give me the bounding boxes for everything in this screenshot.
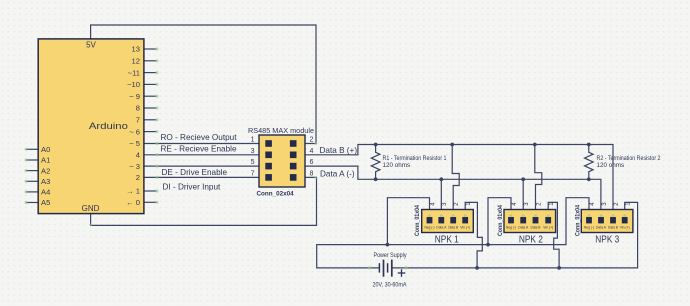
Arduino module A1 [26, 39, 157, 214]
NPK3 pad labels [584, 225, 630, 229]
svg-text:Data B: Data B [608, 225, 619, 229]
svg-text:Data A: Data A [436, 225, 447, 229]
svg-text:Neg (-): Neg (-) [425, 225, 435, 229]
svg-text:DE - Drive Enable: DE - Drive Enable [162, 168, 228, 177]
NPK1 body [422, 210, 474, 233]
svg-text:Vin (+): Vin (+) [543, 225, 553, 229]
svg-text:5V: 5V [86, 40, 96, 49]
svg-text:3: 3 [251, 148, 255, 155]
NPK1 pad labels [425, 225, 471, 229]
svg-text:Data B (+): Data B (+) [320, 146, 358, 155]
svg-text:NPK 3: NPK 3 [595, 234, 619, 245]
svg-text:Conn_02x04: Conn_02x04 [257, 191, 295, 198]
junction dots Data A bus [374, 177, 591, 181]
NPK2 pad labels [506, 225, 553, 229]
NPK 1 connector [415, 202, 473, 246]
svg-text:A0: A0 [41, 145, 50, 154]
wire RE: Arduino pin 4 to RS485 pin 3 [144, 154, 259, 156]
svg-text:Data B: Data B [448, 225, 459, 229]
battery plates [379, 260, 391, 277]
svg-text:8: 8 [310, 170, 314, 177]
svg-text:5: 5 [251, 159, 255, 166]
RS485 MAX module connector U2 [248, 126, 314, 197]
svg-text:Conn_01x04: Conn_01x04 [576, 204, 582, 236]
svg-text:A2: A2 [41, 166, 50, 175]
wire to RS485 pin 5 [144, 165, 259, 167]
Arduino left analog pin stubs [26, 149, 39, 202]
svg-text:RE - Recieve Enable: RE - Recieve Enable [161, 144, 237, 153]
svg-text:A3: A3 [41, 177, 50, 186]
RS485 pads [265, 140, 296, 181]
wire NPK2 Data A drop [522, 179, 524, 219]
svg-text:A5: A5 [41, 198, 50, 207]
NPK1 rotated pin numbers 4 3 2 1 [430, 202, 472, 206]
green pin end dots [24, 47, 626, 269]
wire NPK2 Neg: pad up, left, down to negative bus [488, 198, 511, 245]
NPK 2 connector [498, 202, 555, 246]
svg-text:20V, 30-60mA: 20V, 30-60mA [373, 281, 408, 288]
svg-text:2: 2 [310, 137, 314, 144]
NPK2 rotated pin numbers 4 3 2 1 [512, 202, 555, 206]
svg-text:Arduino: Arduino [89, 121, 128, 132]
svg-text:RO - Recieve Output: RO - Recieve Output [161, 133, 238, 142]
NPK1 pads [427, 217, 468, 223]
wire NPK1 Data B drop with jog over Data A bus [452, 145, 459, 220]
wire NPK1 Neg: pad up, left, down to negative bus [387, 198, 429, 245]
wire GND net: Arduino GND pin down, right, up to RS485 pin 8 [91, 177, 317, 225]
svg-text:A4: A4 [41, 188, 50, 197]
svg-text:4: 4 [136, 151, 140, 160]
svg-text:Conn_01x04: Conn_01x04 [498, 204, 504, 236]
svg-text:1: 1 [251, 137, 255, 144]
right pin names 13..0 [126, 45, 140, 207]
svg-text:Neg (-): Neg (-) [584, 225, 594, 229]
svg-text:Vin (+): Vin (+) [460, 225, 470, 229]
svg-text:7: 7 [136, 116, 140, 125]
svg-text:120 ohms: 120 ohms [597, 162, 625, 169]
junction dots Data B bus [374, 143, 591, 147]
svg-text:Neg (-): Neg (-) [506, 225, 516, 229]
wire RO: Arduino pin 5 to RS485 pin 1 [144, 143, 259, 145]
pin numbers 2 4 6 8 [310, 137, 314, 178]
pin numbers 1 3 5 7 [251, 137, 255, 178]
svg-text:~11: ~11 [128, 68, 140, 77]
svg-text:12: 12 [132, 57, 140, 66]
resistor R2 zigzag [585, 145, 594, 180]
Arduino unconnected right pin stubs [144, 49, 157, 202]
RS485 body [259, 135, 305, 187]
Arduino body [38, 39, 144, 214]
svg-text:2: 2 [136, 173, 140, 182]
wire Data A (-) net: RS485 pin 6 jog down to bus, across, to NPK3 Data A pad [305, 166, 601, 219]
svg-text:8: 8 [136, 104, 140, 113]
svg-text:~ 9: ~ 9 [129, 92, 140, 101]
wire NPK1 Vin: pad up, right, down with jog over negative bus to positive bus [465, 202, 482, 268]
NPK2 pads [508, 217, 551, 223]
NPK3 body [581, 210, 633, 233]
svg-text:120 ohms: 120 ohms [383, 162, 411, 169]
wire 5V net: Arduino 5V pin up, across top, down to RS485 pin 2 [91, 25, 316, 144]
svg-text:~ 3: ~ 3 [129, 162, 140, 171]
svg-text:Data A (-): Data A (-) [320, 170, 355, 179]
left pin names A0..A5 [41, 145, 50, 207]
svg-text:GND: GND [82, 204, 100, 213]
svg-text:RS485 MAX module: RS485 MAX module [248, 126, 314, 135]
svg-text:→ 1: → 1 [126, 187, 140, 196]
svg-text:DI - Driver Input: DI - Driver Input [163, 183, 222, 192]
junction dots negative bus [386, 243, 490, 247]
svg-text:6: 6 [310, 159, 314, 166]
svg-text:~10: ~10 [127, 80, 140, 89]
svg-text:Data A: Data A [596, 225, 607, 229]
NPK3 rotated pin numbers 4 3 2 1 [590, 202, 632, 206]
svg-text:~ 5: ~ 5 [129, 139, 140, 148]
resistor R1 zigzag [371, 145, 380, 180]
battery plus sign [398, 269, 406, 277]
svg-text:Power Supply: Power Supply [374, 252, 408, 259]
NPK3 pads [586, 217, 628, 223]
wire NPK2 Data B drop with jog over Data A bus [535, 145, 542, 220]
svg-text:Vin (+): Vin (+) [620, 225, 630, 229]
svg-text:A1: A1 [41, 156, 50, 165]
wire NPK1 Data A drop [440, 179, 442, 219]
svg-text:~ 6: ~ 6 [129, 127, 140, 136]
svg-text:← 0: ← 0 [126, 198, 140, 207]
svg-text:Data A: Data A [518, 225, 529, 229]
NPK 3 connector [576, 202, 633, 246]
svg-text:NPK 1: NPK 1 [435, 234, 459, 245]
wire Data B (+) net: RS485 pin 4 jog up to bus, across to NPK3 Data B pad [305, 145, 613, 220]
wire NPK2 Vin: pad up, right, down with jog over negative bus to positive bus [548, 202, 559, 268]
svg-text:13: 13 [132, 45, 140, 54]
battery BT1 Power Supply [373, 252, 408, 288]
svg-text:NPK 2: NPK 2 [519, 234, 543, 245]
wire battery positive bus: battery + terminal, right, up to NPK3 Vin pad [392, 202, 637, 268]
svg-text:Data B: Data B [531, 225, 542, 229]
wire battery negative bus: battery - terminal, left, up, across, up to NPK3 Neg pad [317, 198, 589, 268]
junction dots positive bus [475, 266, 561, 270]
svg-text:Conn_01x04: Conn_01x04 [415, 204, 421, 236]
svg-text:7: 7 [251, 170, 255, 177]
NPK2 body [504, 210, 556, 233]
wire DE: Arduino pin 2 to RS485 pin 7 [144, 176, 259, 178]
svg-text:4: 4 [310, 148, 314, 155]
